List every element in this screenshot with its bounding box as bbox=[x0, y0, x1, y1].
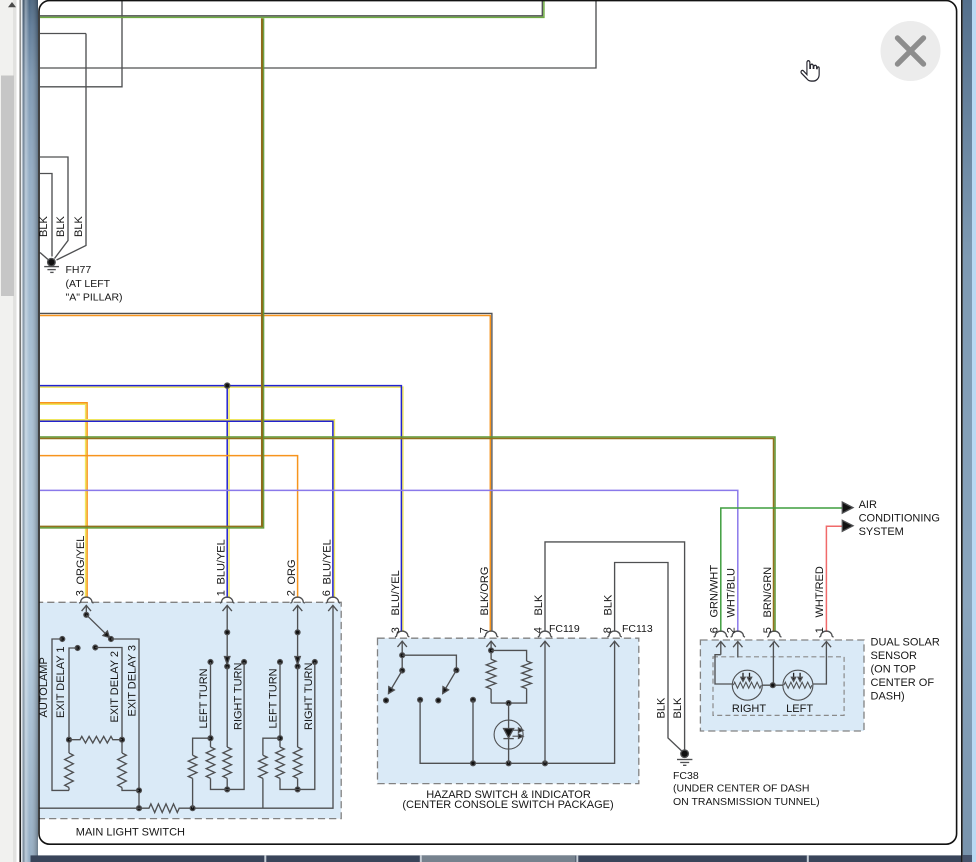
svg-text:5: 5 bbox=[762, 627, 774, 633]
svg-text:CONDITIONING: CONDITIONING bbox=[859, 513, 940, 525]
svg-text:4: 4 bbox=[533, 627, 545, 633]
svg-text:WHT/BLU: WHT/BLU bbox=[726, 568, 738, 618]
svg-text:RIGHT TURN: RIGHT TURN bbox=[233, 663, 245, 730]
svg-text:7: 7 bbox=[479, 627, 491, 633]
svg-text:3: 3 bbox=[390, 627, 402, 633]
svg-text:EXIT DELAY 2: EXIT DELAY 2 bbox=[109, 651, 121, 723]
svg-text:BLU/YEL: BLU/YEL bbox=[216, 539, 228, 584]
svg-text:(AT LEFT: (AT LEFT bbox=[66, 278, 111, 290]
svg-text:LEFT: LEFT bbox=[786, 703, 813, 715]
svg-text:LEFT TURN: LEFT TURN bbox=[268, 668, 280, 728]
svg-text:CENTER OF: CENTER OF bbox=[871, 677, 935, 689]
svg-text:2: 2 bbox=[286, 590, 298, 596]
svg-text:6: 6 bbox=[321, 590, 333, 596]
svg-text:1: 1 bbox=[814, 627, 826, 633]
svg-text:MAIN LIGHT SWITCH: MAIN LIGHT SWITCH bbox=[76, 827, 185, 839]
svg-text:AUTOLAMP: AUTOLAMP bbox=[38, 657, 50, 717]
svg-text:DUAL SOLAR: DUAL SOLAR bbox=[871, 637, 940, 649]
svg-text:ORG: ORG bbox=[286, 559, 298, 584]
svg-text:SENSOR: SENSOR bbox=[871, 650, 918, 662]
svg-text:GRN/WHT: GRN/WHT bbox=[709, 565, 721, 618]
svg-text:(CENTER CONSOLE SWITCH PACKAGE: (CENTER CONSOLE SWITCH PACKAGE) bbox=[402, 799, 613, 811]
svg-text:RIGHT TURN: RIGHT TURN bbox=[303, 663, 315, 730]
svg-text:ON TRANSMISSION TUNNEL): ON TRANSMISSION TUNNEL) bbox=[673, 796, 820, 808]
svg-text:BLU/YEL: BLU/YEL bbox=[321, 539, 333, 584]
svg-text:EXIT DELAY 1: EXIT DELAY 1 bbox=[55, 646, 67, 718]
svg-text:BLK: BLK bbox=[533, 594, 545, 615]
svg-text:(ON TOP: (ON TOP bbox=[871, 664, 916, 676]
svg-text:FH77: FH77 bbox=[66, 264, 92, 276]
svg-text:WHT/RED: WHT/RED bbox=[814, 566, 826, 617]
svg-text:BLK: BLK bbox=[73, 216, 85, 237]
svg-text:FC38: FC38 bbox=[673, 770, 699, 782]
svg-text:1: 1 bbox=[215, 590, 227, 596]
svg-text:FC113: FC113 bbox=[622, 623, 653, 635]
svg-text:ORG/YEL: ORG/YEL bbox=[75, 536, 87, 585]
svg-text:6: 6 bbox=[708, 627, 720, 633]
svg-text:AIR: AIR bbox=[859, 499, 877, 511]
svg-text:LEFT TURN: LEFT TURN bbox=[198, 668, 210, 728]
svg-text:BLK: BLK bbox=[656, 697, 668, 718]
svg-text:SYSTEM: SYSTEM bbox=[859, 526, 904, 538]
svg-text:2: 2 bbox=[725, 627, 737, 633]
svg-text:3: 3 bbox=[74, 590, 86, 596]
svg-text:BLK: BLK bbox=[602, 594, 614, 615]
svg-text:BLK/ORG: BLK/ORG bbox=[479, 567, 491, 616]
svg-text:BLU/YEL: BLU/YEL bbox=[390, 570, 402, 615]
svg-text:"A" PILLAR): "A" PILLAR) bbox=[66, 292, 123, 304]
svg-text:EXIT DELAY 3: EXIT DELAY 3 bbox=[127, 645, 139, 717]
svg-text:BLK: BLK bbox=[55, 216, 67, 237]
svg-text:8: 8 bbox=[602, 627, 614, 633]
svg-text:DASH): DASH) bbox=[871, 691, 905, 703]
svg-text:RIGHT: RIGHT bbox=[732, 703, 767, 715]
svg-text:BLK: BLK bbox=[672, 697, 684, 718]
svg-text:(UNDER CENTER OF DASH: (UNDER CENTER OF DASH bbox=[673, 783, 810, 795]
svg-text:FC119: FC119 bbox=[549, 623, 580, 635]
svg-text:BRN/GRN: BRN/GRN bbox=[762, 567, 774, 618]
